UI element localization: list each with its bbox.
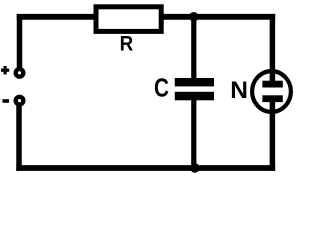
wire: top rail right segment (resistor to right corner) (161, 14, 275, 20)
svg-text:C: C (154, 72, 169, 102)
terminal + (positive input) (16, 69, 24, 77)
neon lamp N envelope circle (252, 71, 291, 112)
capacitor C top plate (175, 78, 214, 86)
svg-text:R: R (120, 31, 134, 56)
wire: capacitor top lead (191, 17, 196, 80)
label - (3, 99, 10, 103)
terminal - (negative input) (16, 97, 24, 105)
capacitor C bottom plate (175, 92, 214, 101)
wire: right vertical from neon lamp bottom electrode to bottom rail (270, 98, 276, 171)
svg-text:N: N (230, 77, 248, 104)
resistor R (96, 7, 161, 32)
wire: capacitor bottom lead (191, 99, 196, 168)
neon lamp bottom electrode (262, 95, 282, 102)
wire: bottom rail (16, 165, 275, 171)
label + (1, 66, 9, 74)
neon lamp top electrode (262, 81, 282, 88)
wire: left vertical from + terminal up to top rail (17, 14, 23, 68)
junction node (top of capacitor branch) (189, 12, 199, 22)
wire: top rail left segment (corner to resistor) (17, 14, 97, 20)
wire: left vertical from - terminal down to bottom rail (16, 105, 22, 171)
junction node (bottom of capacitor branch) (190, 163, 200, 173)
wire: right vertical from top rail into neon lamp top electrode (270, 14, 276, 84)
